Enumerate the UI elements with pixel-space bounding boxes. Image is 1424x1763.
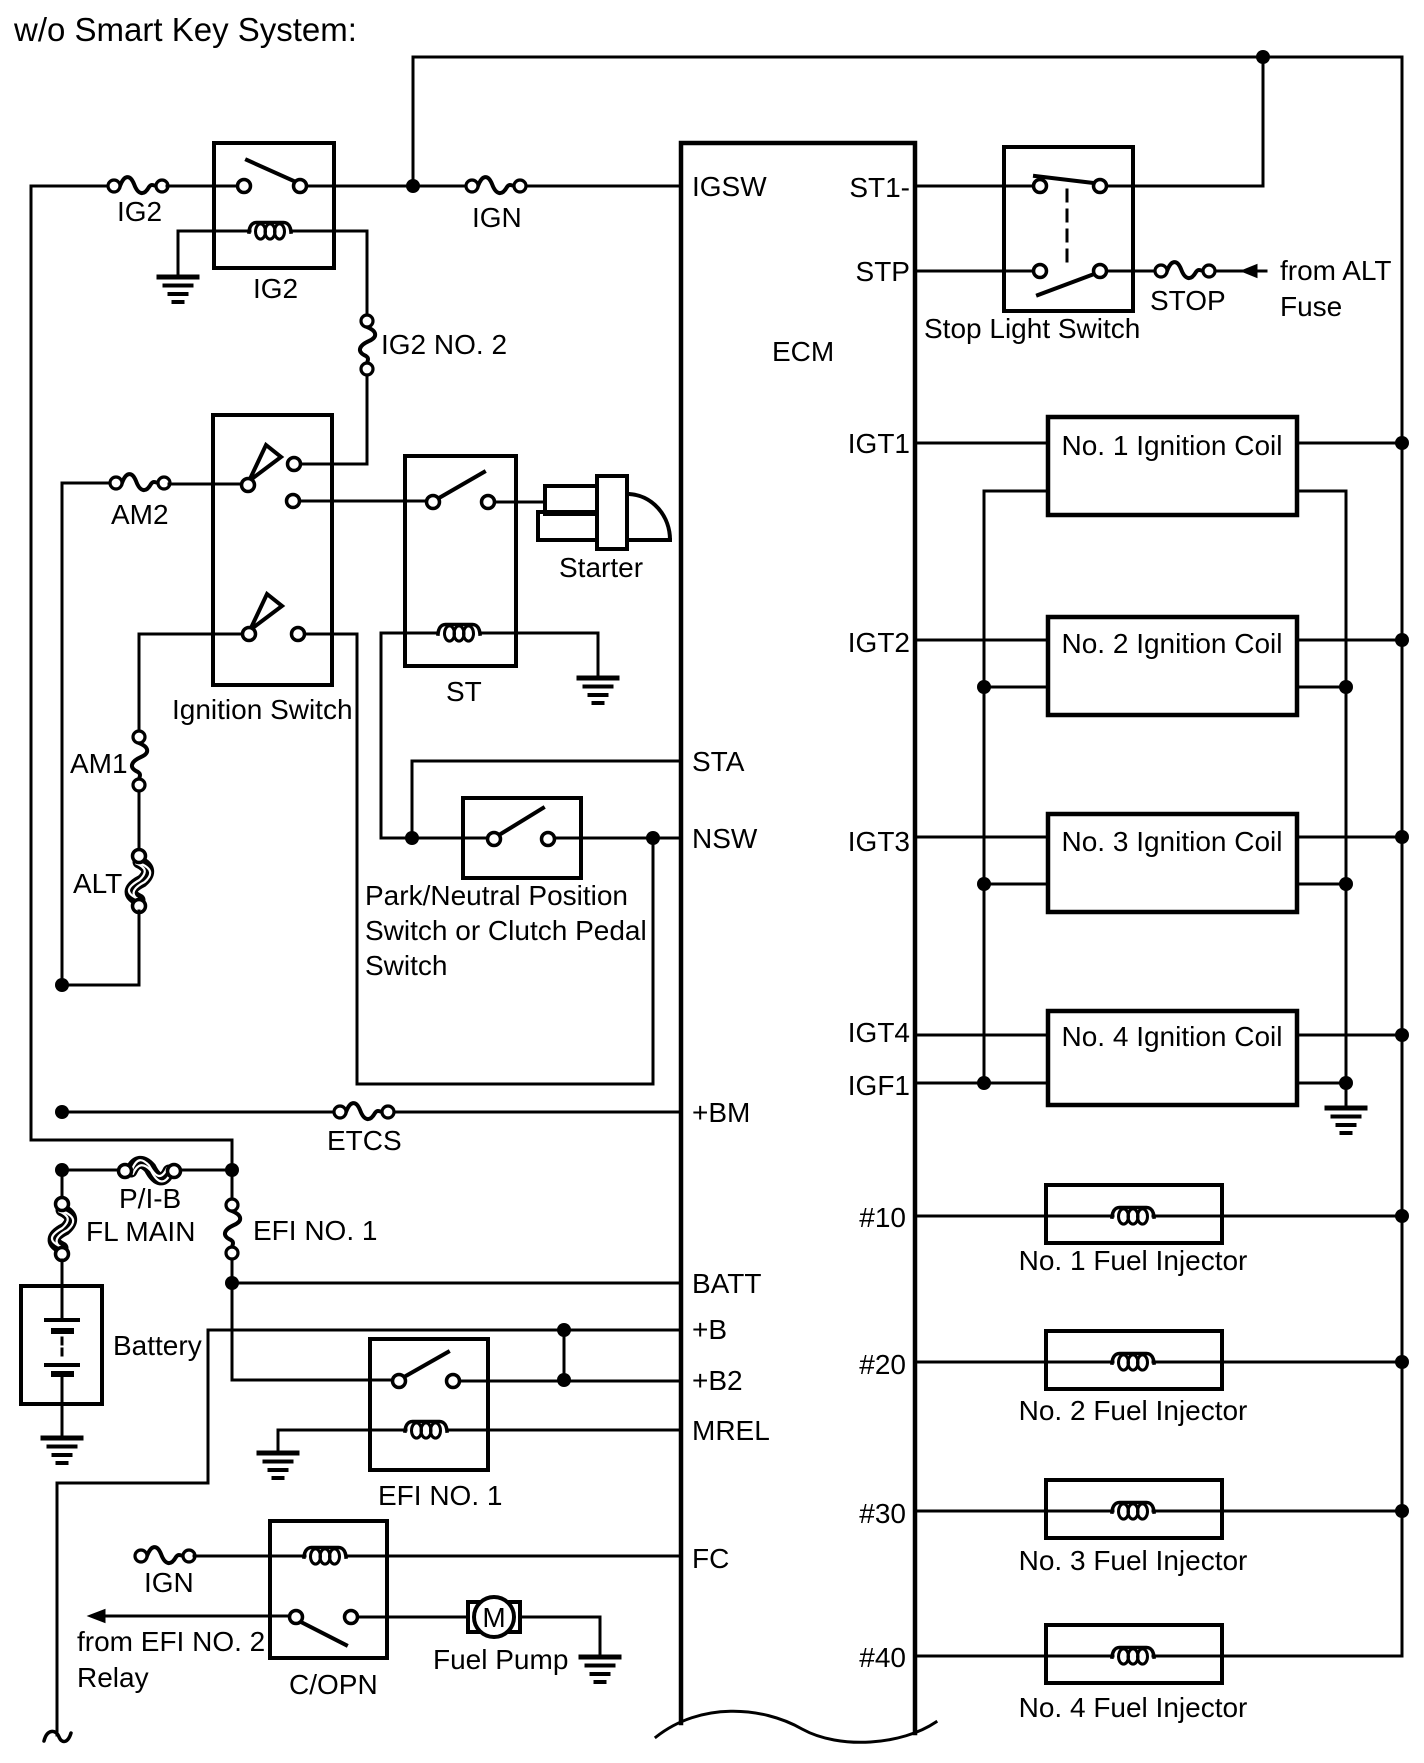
relay IG2 coil [249,223,291,240]
relay ST blade [439,472,484,498]
ECM U1 box [681,143,915,1733]
node ALT junction [55,978,69,992]
svg-text:BATT: BATT [692,1268,761,1299]
fuel injector 2 coil [1112,1354,1154,1371]
relay EFI NO. 1 box [370,1339,488,1470]
svg-text:w/o Smart Key System:: w/o Smart Key System: [13,11,357,48]
fuel injector 1 box [1046,1185,1222,1243]
node IGT3 bus junction [1395,830,1409,844]
ignition switch pivot contact [242,479,255,492]
wire C/OPN to fuel pump [358,1616,466,1619]
svg-text:STP: STP [856,256,910,287]
fuel injector 3 box [1046,1480,1222,1538]
svg-text:Relay: Relay [77,1662,149,1693]
fusible link P/I-B [119,1160,181,1181]
stop light contact bottom right [1094,265,1107,278]
svg-text:ETCS: ETCS [327,1125,402,1156]
svg-text:IGT4: IGT4 [848,1017,910,1048]
svg-text:FC: FC [692,1543,729,1574]
wire P/I-B row [62,1169,232,1172]
fuse EFI NO. 1 vertical [231,1170,234,1199]
wire #20 [915,1361,1402,1364]
wire right bus [1401,57,1404,1656]
wire coil2 low [984,686,1346,689]
svg-text:No. 1 Fuel Injector: No. 1 Fuel Injector [1019,1245,1248,1276]
svg-text:IG2 NO. 2: IG2 NO. 2 [381,329,507,360]
wire coil3 low [984,883,1346,886]
svg-text:IGF1: IGF1 [848,1070,910,1101]
relay C/OPN coil [304,1548,346,1565]
ignition switch contact IG2-out [288,458,301,471]
node P/I-B right junction [225,1163,239,1177]
svg-text:STOP: STOP [1150,285,1226,316]
relay EFI coil leads [278,1429,681,1432]
node P/I-B left junction [55,1163,69,1177]
ground battery [43,1438,81,1463]
wire AM2 feed [62,483,110,979]
node IGT2 bus junction [1395,633,1409,647]
svg-text:#10: #10 [859,1202,906,1233]
relay ST coil leads [381,633,598,677]
relay C/OPN contact right [345,1611,358,1624]
ECM bottom tear wave [656,1711,936,1742]
relay IG2 contact right [294,180,307,193]
svg-text:ALT: ALT [73,868,122,899]
relay C/OPN box [270,1521,387,1658]
node coil2 low left [977,680,991,694]
relay IG2 box [214,143,334,268]
ground ST relay [579,678,617,703]
relay C/OPN blade [301,1622,346,1645]
node IGT4 bus junction [1395,1028,1409,1042]
ground ignition coils [1327,1108,1365,1133]
switch Stop Light box [1004,147,1133,311]
node IGSW junction [406,179,420,193]
wire NSW to ECM [555,837,681,840]
wire AM1 to ALT [138,791,141,850]
wire STA [412,761,681,838]
stop light blade top [1035,176,1102,184]
svg-text:No. 4 Fuel Injector: No. 4 Fuel Injector [1019,1692,1248,1723]
svg-text:from ALT: from ALT [1280,255,1392,286]
wire IGF bus left [983,491,986,1083]
svg-text:Stop Light Switch: Stop Light Switch [924,313,1140,344]
svg-text:Switch or Clutch Pedal: Switch or Clutch Pedal [365,915,647,946]
wire STP [915,270,1033,273]
stop light contact bottom left [1034,265,1047,278]
svg-text:ST: ST [446,676,482,707]
svg-text:No. 3 Fuel Injector: No. 3 Fuel Injector [1019,1545,1248,1576]
ground IG2 relay [177,231,180,276]
motor fuel pump [468,1597,520,1637]
stop light dashed link [1066,190,1069,268]
wire +B [57,1330,681,1735]
relay EFI contact right [447,1375,460,1388]
node +B junction [557,1323,571,1337]
svg-text:No. 2 Ignition Coil: No. 2 Ignition Coil [1061,628,1282,659]
svg-text:Park/Neutral Position: Park/Neutral Position [365,880,628,911]
wire +B tail wave [44,1731,71,1741]
fuse IG2 NO. 2 [360,315,375,375]
node junction top bus [1256,50,1270,64]
switch Park/Neutral box [463,798,581,878]
node #30 bus junction [1395,1504,1409,1518]
ignition switch wedge ACC [250,594,282,630]
svg-text:Fuel Pump: Fuel Pump [433,1644,568,1675]
ignition switch pivot contact lower [243,628,256,641]
svg-text:IGN: IGN [144,1567,194,1598]
fuse IGN bottom [135,1547,195,1563]
wire IGSW relay to ECM [307,185,681,188]
relay ST contact left [427,496,440,509]
stop light contact top right [1094,180,1107,193]
node IGT1 bus junction [1395,436,1409,450]
svg-text:#30: #30 [859,1498,906,1529]
node #20 bus junction [1395,1355,1409,1369]
relay EFI contact left [393,1375,406,1388]
wire IGT2 [915,639,1402,642]
svg-text:IGN: IGN [472,202,522,233]
ignition switch wedge IG [249,445,281,481]
svg-text:IG2: IG2 [253,273,298,304]
fuel injector 4 coil [1112,1648,1154,1665]
relay EFI coil [405,1422,447,1439]
svg-text:Switch: Switch [365,950,447,981]
relay C/OPN contact left [290,1611,303,1624]
relay IG2 contact left [238,180,251,193]
svg-text:IGSW: IGSW [692,171,767,202]
relay ST box [405,456,516,666]
relay ST contact right [482,496,495,509]
svg-text:P/I-B: P/I-B [119,1183,181,1214]
wire ignition switch to ST relay [300,500,427,503]
svg-text:EFI NO. 1: EFI NO. 1 [378,1480,502,1511]
fuse IGN [466,177,526,193]
svg-text:IG2: IG2 [117,196,162,227]
wire IGT1 [915,442,1402,445]
svg-text:STA: STA [692,746,745,777]
wire coil1 low [984,490,1346,493]
wire ST coil to NSW net [380,633,383,838]
relay IG2 blade [247,160,296,182]
svg-text:AM1: AM1 [70,748,128,779]
wire #40 [915,1655,1402,1658]
battery B1 [61,1260,64,1320]
svg-text:C/OPN: C/OPN [289,1669,378,1700]
wire coil ground bus right [1345,491,1348,1107]
ignition switch contact ST-out [287,495,300,508]
wire ST1 to switch [915,185,1033,188]
wire IGF1 [915,1082,1346,1085]
svg-text:IGT1: IGT1 [848,428,910,459]
wire NSW return loop [357,838,653,1084]
wire battery feed left vertical x31 [31,186,232,1164]
wire ALT to battery net [62,911,139,985]
svg-text:IGT2: IGT2 [848,627,910,658]
node +BM junction [55,1105,69,1119]
wire IGT3 [915,836,1402,839]
switch Ignition Switch box [213,415,332,685]
svg-text:AM2: AM2 [111,499,169,530]
ground EFI relay [277,1430,280,1452]
svg-text:IGT3: IGT3 [848,826,910,857]
wire IG2 NO.2 fuse to ignition switch [301,375,367,464]
svg-text:FL MAIN: FL MAIN [86,1216,195,1247]
ignition switch contact lower right [292,628,305,641]
node coil4 low right [1339,1076,1353,1090]
node coil3 low left [977,877,991,891]
wire ST1 drop from bus [1106,57,1263,186]
svg-text:ECM: ECM [772,336,834,367]
node BATT junction [225,1276,239,1290]
svg-text:#20: #20 [859,1349,906,1380]
svg-text:from EFI NO. 2: from EFI NO. 2 [77,1626,265,1657]
fuel injector 2 box [1046,1331,1222,1389]
svg-text:EFI NO. 1: EFI NO. 1 [253,1215,377,1246]
fuel injector 4 box [1046,1625,1222,1683]
svg-text:Battery: Battery [113,1330,202,1361]
fusible link ALT [129,850,150,913]
node #10 bus junction [1395,1209,1409,1223]
wire top bus IGSW to ST1 [413,57,1402,186]
stop light contact top left [1034,180,1047,193]
ignition coil 2 box [1048,617,1297,715]
svg-text:Fuse: Fuse [1280,291,1342,322]
wire fuel pump to ground [520,1617,600,1655]
svg-text:No. 2 Fuel Injector: No. 2 Fuel Injector [1019,1395,1248,1426]
wire +BM [62,1111,681,1114]
relay ST coil [438,625,480,642]
svg-text:No. 4 Ignition Coil: No. 4 Ignition Coil [1061,1021,1282,1052]
svg-text:Ignition Switch: Ignition Switch [172,694,353,725]
fuel injector 3 coil [1112,1503,1154,1520]
wire BATT [232,1259,394,1380]
park neutral contact left [488,833,501,846]
svg-text:+BM: +BM [692,1097,750,1128]
wire #30 [915,1510,1402,1513]
park neutral contact right [542,833,555,846]
wire AM1 branch [139,634,242,730]
node coil3 low right [1339,877,1353,891]
relay IG2 coil leads [178,231,367,315]
fuse STOP [1155,262,1215,278]
fusible link FL MAIN [61,1170,64,1198]
svg-text:Starter: Starter [559,552,643,583]
svg-text:MREL: MREL [692,1415,770,1446]
wire STP to STOP fuse [1107,270,1155,273]
wire ST2 branch [305,634,357,1084]
relay EFI blade [404,1352,448,1377]
node IGF1 junction [977,1076,991,1090]
wire NSW to park neutral switch [381,837,488,840]
wire IG2 fuse to relay [167,185,238,188]
svg-text:+B2: +B2 [692,1365,743,1396]
svg-text:No. 3 Ignition Coil: No. 3 Ignition Coil [1061,826,1282,857]
stop light blade bottom [1038,273,1097,295]
fuse IG2 [108,177,168,193]
starter motor symbol [538,476,670,549]
wire AM2 fuse to pivot [169,483,242,486]
ground fuel pump [581,1657,619,1682]
svg-text:M: M [482,1602,505,1633]
svg-text:+B: +B [692,1314,727,1345]
node coil2 low right [1339,680,1353,694]
ignition coil 1 box [1048,417,1297,515]
node +B2 junction [557,1373,571,1387]
park neutral blade [499,808,543,835]
ignition coil 3 box [1048,814,1297,912]
arrow from ALT fuse [1215,270,1266,273]
wire IGT4 [915,1034,1402,1037]
svg-text:ST1-: ST1- [849,172,910,203]
node STA junction [405,831,419,845]
fuse AM2 [110,474,170,490]
node NSW junction [646,831,660,845]
wire +B2 [460,1380,681,1383]
svg-text:NSW: NSW [692,823,758,854]
fuse ETCS [334,1103,394,1119]
ignition coil 4 box [1048,1011,1297,1105]
svg-text:#40: #40 [859,1642,906,1673]
fuse AM1 [132,731,147,791]
svg-text:No. 1 Ignition Coil: No. 1 Ignition Coil [1061,430,1282,461]
wire ST relay to starter [495,501,545,504]
wire FC [194,1555,681,1558]
wire #10 [915,1215,1402,1218]
wire +B to +B2 link [563,1330,566,1380]
fuel injector 1 coil [1112,1208,1154,1225]
arrow from EFI NO. 2 relay [100,1615,290,1618]
